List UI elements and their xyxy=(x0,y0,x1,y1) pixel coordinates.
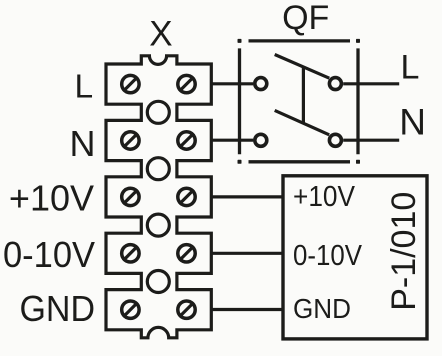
screw terminal N right xyxy=(178,132,195,149)
coupler circle between terminal 4 and 5 xyxy=(147,271,169,293)
coupler circle between terminal 2 and 3 xyxy=(147,158,169,180)
breaker QF dashed enclosure left xyxy=(238,39,241,164)
wire L: strip to QF pole 1 xyxy=(211,82,253,85)
svg-text:L: L xyxy=(401,48,420,86)
screw terminal 0-10V right xyxy=(178,245,195,262)
terminal strip X outline xyxy=(106,56,211,338)
screw terminal N left xyxy=(122,132,139,149)
screw terminal +10V right xyxy=(178,188,195,205)
QF pole 1 right contact xyxy=(329,78,341,90)
coupler circle between terminal 1 and 2 xyxy=(147,101,169,123)
svg-text:N: N xyxy=(70,123,96,164)
svg-text:QF: QF xyxy=(282,0,329,37)
QF pole 2 left contact xyxy=(255,134,267,146)
wire L: QF pole 1 to label L xyxy=(343,82,399,85)
QF pole 2 right contact xyxy=(329,134,341,146)
screw terminal GND right xyxy=(178,301,195,318)
screw terminal L left xyxy=(122,75,139,92)
svg-text:0-10V: 0-10V xyxy=(3,234,95,275)
svg-text:0-10V: 0-10V xyxy=(293,240,362,272)
screw terminal 0-10V left xyxy=(122,245,139,262)
wire N: strip to QF pole 2 xyxy=(211,139,253,142)
wire GND: strip to P-1/010 xyxy=(211,308,283,311)
wire +10V: strip to P-1/010 xyxy=(211,195,283,198)
QF pole 2 blade xyxy=(275,110,330,134)
controller box P-1/010 xyxy=(283,176,427,339)
breaker QF dashed enclosure top xyxy=(238,39,361,42)
svg-text:X: X xyxy=(149,15,172,54)
wire 0-10V: strip to P-1/010 xyxy=(211,252,283,255)
svg-text:N: N xyxy=(399,101,426,142)
breaker QF dashed enclosure bottom xyxy=(238,160,361,163)
QF linkage bar xyxy=(302,67,305,123)
QF pole 1 blade xyxy=(275,55,330,79)
svg-text:L: L xyxy=(74,69,93,106)
QF pole 1 left contact xyxy=(255,78,267,90)
svg-text:+10V: +10V xyxy=(293,181,355,213)
wire N: QF pole 2 to label N xyxy=(343,139,399,142)
screw terminal GND left xyxy=(122,301,139,318)
screw terminal L right xyxy=(178,75,195,92)
svg-text:+10V: +10V xyxy=(9,177,94,218)
coupler circle between terminal 3 and 4 xyxy=(147,214,169,236)
svg-text:GND: GND xyxy=(293,293,351,324)
breaker QF dashed enclosure right xyxy=(356,39,359,164)
svg-text:P-1/010: P-1/010 xyxy=(385,192,423,311)
svg-text:GND: GND xyxy=(20,288,96,329)
screw terminal +10V left xyxy=(122,188,139,205)
